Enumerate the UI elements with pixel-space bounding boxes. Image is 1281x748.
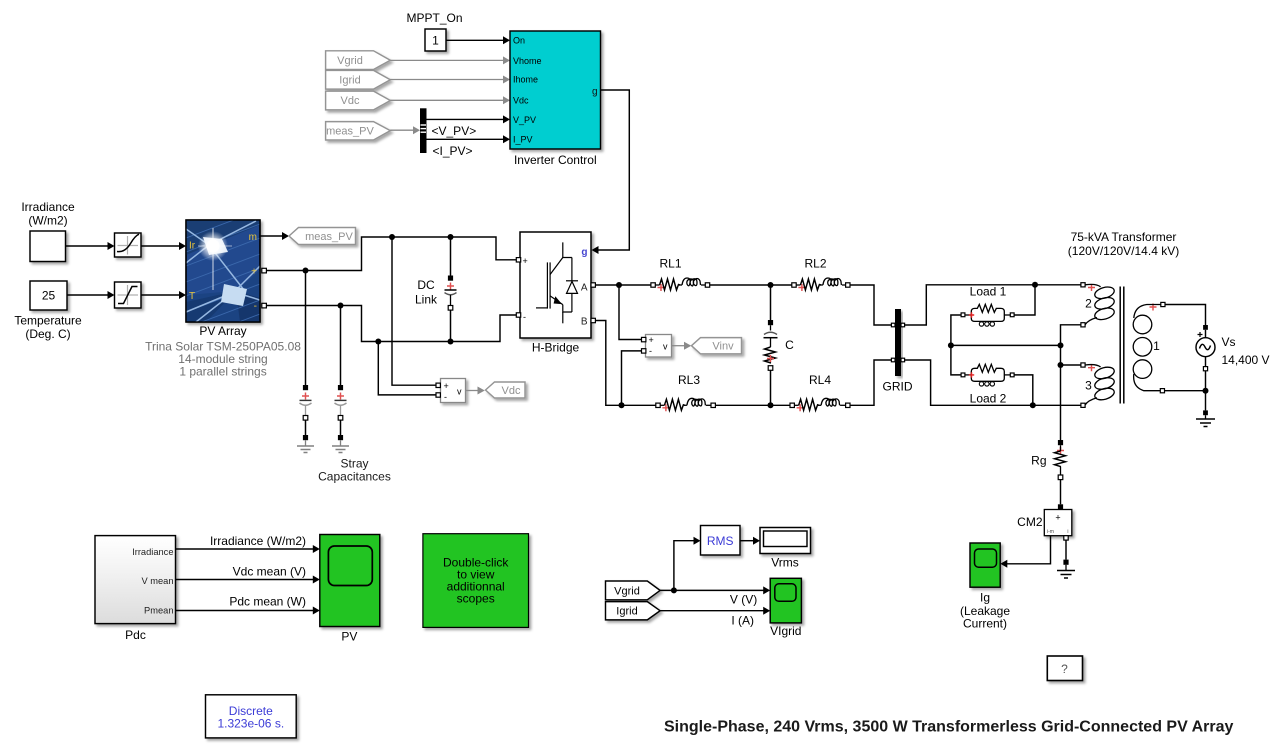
- junction bottom rail DC link: [448, 339, 454, 345]
- svg-text:1: 1: [432, 34, 439, 48]
- svg-text:<V_PV>: <V_PV>: [432, 124, 477, 138]
- svg-text:Ig: Ig: [980, 591, 990, 605]
- annotation Ig (Leakage Current): [960, 591, 1010, 631]
- block RMS: [701, 526, 741, 556]
- wire Igrid tag to Ihome: [390, 76, 510, 84]
- annotation DC Link: [415, 278, 438, 307]
- powergui block Discrete: [206, 695, 297, 738]
- svg-text:Igrid: Igrid: [339, 74, 360, 86]
- svg-text:RL2: RL2: [804, 257, 826, 271]
- voltage measurement Vinv: [642, 335, 672, 358]
- subsystem H-Bridge: [520, 232, 591, 338]
- wire neutral: [951, 344, 1061, 346]
- wire Vdc measure minus tap: [378, 342, 436, 395]
- From tag Vdc: [326, 91, 391, 110]
- svg-text:Link: Link: [415, 293, 438, 307]
- svg-text:Vgrid: Vgrid: [337, 55, 363, 67]
- wire down to Rg: [1060, 365, 1062, 440]
- svg-text:+: +: [444, 381, 449, 391]
- junction B wire Vinv minus: [619, 402, 625, 408]
- svg-text:g: g: [581, 247, 587, 258]
- rate limiter (irradiance ramp): [115, 233, 142, 257]
- svg-text:V (V): V (V): [730, 593, 757, 607]
- svg-text:PV: PV: [341, 630, 357, 644]
- series RL branch RL1: [651, 278, 710, 291]
- series RL branch RL3: [656, 398, 716, 411]
- port square H-Bridge minus: [516, 313, 520, 317]
- wire neutral to Load 2 left: [951, 345, 961, 375]
- svg-text:Vdc: Vdc: [341, 95, 360, 107]
- wire Pdc V mean to PV scope, label Vdc mean (V): [176, 564, 320, 583]
- junction C branch bottom: [768, 402, 774, 408]
- svg-text:+: +: [251, 267, 257, 278]
- svg-text:14,400 V: 14,400 V: [1222, 353, 1270, 367]
- constant 25 Temperature: [30, 281, 67, 310]
- From tag Vgrid: [326, 51, 391, 70]
- svg-text:Vrms: Vrms: [771, 556, 799, 570]
- port square H-Bridge A: [591, 283, 595, 287]
- capacitor-resistor branch C: [764, 285, 778, 405]
- svg-text:+: +: [649, 335, 654, 345]
- svg-text:Vgrid: Vgrid: [614, 585, 640, 597]
- annotation Vs 14400 V: [1222, 335, 1270, 367]
- junction C branch top: [768, 282, 774, 288]
- series RL branch RL4: [790, 398, 850, 411]
- ground stray 1: [297, 446, 314, 453]
- wire Load 1 left to neutral: [951, 315, 961, 345]
- svg-text:DC: DC: [417, 278, 435, 292]
- svg-text:Pdc mean (W): Pdc mean (W): [229, 594, 306, 608]
- svg-text:75-kVA Transformer: 75-kVA Transformer: [1071, 230, 1177, 244]
- svg-text:meas_PV: meas_PV: [305, 231, 353, 243]
- wire Pdc Irradiance to PV scope, label Irradiance (W/m2): [176, 534, 320, 553]
- svg-text:Igrid: Igrid: [616, 606, 637, 618]
- svg-text:?: ?: [1061, 662, 1068, 676]
- AC voltage source Vs: [1196, 330, 1215, 371]
- junction neutral right: [1058, 342, 1064, 348]
- svg-text:Load 2: Load 2: [970, 392, 1007, 406]
- stray capacitance branch 2: [335, 306, 347, 447]
- svg-text:A: A: [581, 282, 588, 293]
- wire Vgrid tap to RMS: [674, 537, 701, 591]
- wire neutral to winding 3 top: [1061, 345, 1081, 365]
- wire meas_PV tag to bus selector: [390, 126, 420, 134]
- Goto tag Vdc: [486, 382, 526, 398]
- port square PV -: [262, 303, 267, 308]
- ground CM2: [1057, 571, 1075, 579]
- scope VIgrid: [770, 578, 801, 638]
- ground stray 2: [332, 446, 349, 453]
- port square H-Bridge B: [591, 318, 595, 322]
- junction top rail at x392: [389, 234, 395, 240]
- transformer core: [1120, 287, 1124, 404]
- svg-text:V_PV: V_PV: [513, 115, 536, 125]
- bus selector: [420, 108, 427, 153]
- wire Rg to CM2: [1058, 480, 1063, 510]
- svg-text:Current): Current): [963, 617, 1007, 631]
- svg-text:MPPT_On: MPPT_On: [406, 11, 462, 25]
- wire Irradiance to rate limiter: [66, 242, 115, 250]
- svg-text:Temperature: Temperature: [14, 314, 82, 328]
- svg-text:Single-Phase, 240 Vrms, 3500 W: Single-Phase, 240 Vrms, 3500 W Transform…: [664, 719, 1234, 736]
- subsystem U-InverterControl: [510, 31, 601, 167]
- wire Vinv minus tap: [622, 351, 642, 405]
- resistor Rg: [1031, 440, 1065, 480]
- svg-text:<I_PV>: <I_PV>: [433, 144, 473, 158]
- wire PV minus to DC bus bottom: [266, 306, 516, 342]
- annotation Stray Capacitances: [318, 457, 391, 484]
- PV Array block: [186, 210, 260, 342]
- junction on plus wire at stray cap 1: [303, 268, 309, 274]
- svg-text:2: 2: [1085, 297, 1092, 311]
- svg-text:Irradiance: Irradiance: [132, 547, 173, 557]
- wire RL4 to GRID bottom: [850, 360, 891, 405]
- svg-text:VIgrid: VIgrid: [770, 624, 801, 638]
- stray capacitance branch 1: [300, 271, 312, 447]
- svg-text:Vinv: Vinv: [712, 341, 734, 353]
- svg-text:RL4: RL4: [809, 373, 831, 387]
- wire Load 1 right to top wire: [1014, 285, 1035, 315]
- connection port GRID: [883, 309, 913, 394]
- junction Vgrid RMS tap: [671, 587, 677, 593]
- wire RL1 to RL2: [710, 284, 792, 286]
- wire PV plus to DC bus top: [266, 237, 516, 271]
- junction on minus wire at stray cap 2: [338, 303, 344, 309]
- IGBT symbol inside H-Bridge: [536, 242, 572, 323]
- From tag Igrid bottom: [606, 602, 661, 620]
- svg-text:I_PV: I_PV: [513, 135, 533, 145]
- series RL branch RL2: [792, 278, 850, 291]
- wire Vdc tag to Vdc port: [390, 96, 510, 104]
- wire Load 2 right to bottom wire: [1014, 375, 1033, 405]
- wire Vinv plus tap: [619, 285, 642, 340]
- parallel RL load Load 1: [961, 304, 1014, 326]
- svg-text:-: -: [523, 312, 526, 322]
- From tag Vgrid bottom: [606, 581, 661, 600]
- wire GRID to transformer winding 2 top: [905, 285, 1081, 325]
- wire saturation to PV T: [141, 291, 186, 299]
- capacitor DC Link branch: [445, 237, 457, 342]
- display Vrms: [760, 528, 811, 570]
- svg-text:+: +: [523, 256, 528, 266]
- svg-text:m: m: [249, 232, 257, 243]
- svg-text:(W/m2): (W/m2): [28, 214, 67, 228]
- From tag meas_PV: [326, 122, 391, 140]
- port square Vs top: [1203, 325, 1208, 330]
- transformer winding 2: [1081, 283, 1116, 327]
- From tag Igrid: [326, 70, 391, 89]
- junction neutral left: [948, 342, 954, 348]
- wire winding 1 top to Vs: [1165, 305, 1206, 326]
- annotation block Double-click to view additionnal scopes: [423, 534, 529, 628]
- svg-text:Inverter Control: Inverter Control: [514, 153, 597, 167]
- wire A to RL1: [595, 284, 651, 286]
- subsystem Pdc: [95, 536, 176, 643]
- svg-text:1 parallel strings: 1 parallel strings: [179, 364, 266, 378]
- svg-text:CM2: CM2: [1017, 515, 1043, 529]
- saturation (temperature slew): [115, 282, 142, 308]
- svg-text:25: 25: [42, 289, 56, 303]
- transformer winding 3: [1081, 363, 1116, 408]
- svg-text:meas_PV: meas_PV: [326, 125, 374, 137]
- wire Vdc measure plus tap: [392, 237, 436, 385]
- port square H-Bridge plus: [516, 258, 520, 262]
- svg-text:RL3: RL3: [678, 373, 700, 387]
- svg-text:Ir: Ir: [189, 241, 196, 252]
- wire CM2 to ground: [1063, 540, 1068, 570]
- wire RL2 to GRID top: [850, 285, 891, 325]
- model info block ?: [1047, 656, 1082, 681]
- svg-text:I (A): I (A): [731, 614, 754, 628]
- junction Load 1 right: [1032, 282, 1038, 288]
- svg-text:Irradiance (W/m2): Irradiance (W/m2): [210, 534, 306, 548]
- wire rate limiter to PV Ir: [141, 242, 186, 250]
- svg-text:i: i: [1067, 529, 1068, 535]
- svg-text:C: C: [785, 338, 794, 352]
- svg-text:g: g: [592, 87, 598, 98]
- scope PV: [320, 535, 380, 644]
- wire RL3 to RL4: [715, 404, 790, 406]
- svg-text:Rg: Rg: [1031, 454, 1046, 468]
- wire 25 to saturation: [67, 291, 115, 299]
- wire g output feedback to H-Bridge g: [592, 90, 630, 254]
- junction A wire Vinv plus: [616, 282, 622, 288]
- svg-text:(120V/120V/14.4 kV): (120V/120V/14.4 kV): [1068, 244, 1179, 258]
- svg-text:T: T: [189, 291, 195, 302]
- Goto tag meas_PV: [289, 228, 356, 245]
- junction Load 2 right: [1030, 402, 1036, 408]
- Goto tag Vinv: [692, 338, 742, 354]
- wire Vgrid to VIgrid scope, label V (V): [660, 586, 770, 606]
- constant MPPT_On value 1: [406, 11, 462, 51]
- wire RMS to Vrms display: [740, 537, 760, 545]
- svg-text:RMS: RMS: [707, 534, 734, 548]
- svg-text:v: v: [457, 386, 462, 396]
- wire Vinv measure to Vinv goto: [672, 342, 692, 350]
- svg-text:-: -: [254, 301, 257, 312]
- svg-text:Vdc mean (V): Vdc mean (V): [233, 564, 306, 578]
- wire bus selector V_PV, value label <V_PV>: [427, 115, 511, 137]
- svg-text:v: v: [663, 342, 668, 352]
- svg-text:Load 1: Load 1: [970, 285, 1007, 299]
- wire GRID to transformer winding 3 bottom: [905, 360, 1081, 405]
- svg-text:PV Array: PV Array: [199, 324, 246, 338]
- svg-text:Capacitances: Capacitances: [318, 470, 391, 484]
- svg-text:Vhome: Vhome: [513, 56, 542, 66]
- junction winding 3 top tap: [1058, 362, 1064, 368]
- wire winding 2 bottom to neutral: [1061, 325, 1081, 346]
- svg-text:Ihome: Ihome: [513, 75, 538, 85]
- transformer winding 1: [1133, 302, 1165, 392]
- junction bottom rail Vdc tap: [375, 339, 381, 345]
- wire Pdc Pmean to PV scope, label Pdc mean (W): [176, 594, 320, 614]
- wire Vgrid tag to Vhome: [390, 56, 510, 64]
- svg-text:scopes: scopes: [457, 592, 495, 606]
- svg-text:On: On: [513, 36, 525, 46]
- annotation Irradiance (W/m2): [21, 200, 75, 228]
- svg-text:H-Bridge: H-Bridge: [532, 341, 580, 355]
- wire Vdc measure to Vdc goto: [466, 387, 485, 395]
- annotation 75-kVA Transformer: [1068, 230, 1179, 258]
- svg-text:Pdc: Pdc: [125, 628, 146, 642]
- svg-text:i-m: i-m: [1047, 529, 1054, 535]
- svg-text:-: -: [649, 346, 652, 356]
- svg-text:RL1: RL1: [659, 257, 681, 271]
- svg-text:Vdc: Vdc: [502, 385, 521, 397]
- wire B down to RL3: [595, 321, 655, 406]
- annotation Temperature (Deg. C): [14, 314, 82, 342]
- svg-text:1: 1: [1153, 339, 1160, 353]
- annotation PV Array name: [145, 324, 301, 379]
- svg-text:1.323e-06 s.: 1.323e-06 s.: [217, 716, 284, 730]
- diode symbol inside H-Bridge: [566, 258, 578, 313]
- wire bus selector I_PV, value label <I_PV>: [427, 135, 511, 158]
- voltage measurement Vdc: [436, 379, 466, 403]
- parallel RL load Load 2: [961, 364, 1014, 386]
- svg-text:B: B: [581, 316, 588, 327]
- wire Vs to ground: [1203, 391, 1208, 419]
- svg-text:Irradiance: Irradiance: [21, 200, 75, 214]
- junction top rail at DC link: [448, 234, 454, 240]
- wire Igrid to VIgrid scope, label I (A): [660, 607, 770, 628]
- scope Ig: [970, 543, 1000, 587]
- svg-text:V mean: V mean: [141, 576, 173, 586]
- wire CM2 signal to Ig scope: [1000, 536, 1050, 568]
- svg-text:GRID: GRID: [883, 380, 913, 394]
- wire Vs bottom to winding 1 bottom: [1165, 371, 1206, 391]
- ground Vs: [1196, 419, 1215, 427]
- svg-text:+: +: [1055, 513, 1060, 523]
- wire PV m to meas_PV goto: [260, 232, 289, 240]
- junction Vs ground: [1203, 388, 1209, 394]
- svg-text:Pmean: Pmean: [144, 606, 173, 616]
- svg-text:3: 3: [1085, 379, 1092, 393]
- svg-text:-: -: [444, 392, 447, 402]
- wire MPPT_On to Inverter Control On: [446, 36, 510, 44]
- port square PV +: [262, 268, 267, 273]
- svg-text:(Deg. C): (Deg. C): [25, 327, 70, 341]
- constant Irradiance: [30, 231, 66, 262]
- svg-text:Vs: Vs: [1222, 335, 1236, 349]
- svg-text:Vdc: Vdc: [513, 96, 529, 106]
- current measurement CM2: [1017, 510, 1072, 541]
